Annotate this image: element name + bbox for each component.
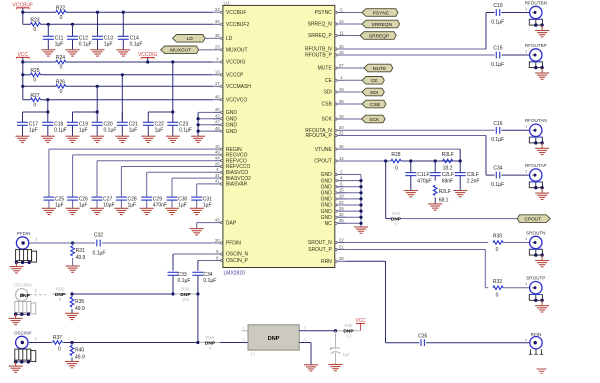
svg-text:SRREQP: SRREQP [369,33,389,39]
node SDI flag [362,88,384,96]
ground [91,50,105,56]
ground [537,369,547,373]
wire C30 net [172,178,213,197]
svg-text:0.1µF: 0.1µF [179,128,192,134]
op-amp U1 LMX2820 IC body [223,0,335,276]
svg-text:C25: C25 [55,196,64,202]
node C33 bottom [171,292,174,295]
wire C25 net [49,149,213,197]
svg-text:SRREQ_P: SRREQ_P [308,33,333,39]
wire R22 to pin 24 [66,11,213,13]
svg-text:44: 44 [215,156,220,161]
svg-text:R38: R38 [206,335,214,340]
svg-text:DNP: DNP [20,293,31,299]
svg-text:GND: GND [321,215,333,221]
svg-text:1: 1 [525,170,527,174]
node C34 OSCINP junction [196,341,199,344]
svg-text:SDI: SDI [370,90,378,96]
svg-text:GND: GND [321,191,333,197]
resistor R32 [493,279,503,299]
capacitor C18 [42,112,67,136]
svg-text:0: 0 [60,15,63,21]
svg-text:22: 22 [339,237,344,242]
resistor R25 [30,68,40,84]
svg-text:18: 18 [339,194,344,199]
wire VCCBUF down to rail2 [22,12,24,24]
svg-text:34: 34 [215,173,220,178]
svg-text:0.1µF: 0.1µF [104,128,117,134]
pin 15 RFOUTB_N [305,44,345,53]
svg-text:VCCDIG: VCCDIG [226,60,246,66]
svg-text:SROUT_P: SROUT_P [308,247,332,253]
node SRREQN flag [362,20,400,28]
svg-text:C19: C19 [79,121,88,127]
svg-text:10µF: 10µF [103,203,115,209]
wire C22 tap [148,111,173,113]
svg-text:R2LF: R2LF [439,189,451,195]
svg-text:MUTE: MUTE [318,66,333,72]
svg-text:C27: C27 [103,196,112,202]
svg-text:VCCBUF: VCCBUF [226,10,247,16]
svg-text:SCK: SCK [369,117,380,123]
pin 17 VCCMASH [213,81,251,90]
ground [141,136,155,142]
svg-text:45: 45 [215,95,220,100]
ground [354,227,368,233]
svg-text:0.1µF: 0.1µF [130,42,143,48]
wire SROUT_N [345,242,530,244]
svg-text:VCCVCO: VCCVCO [226,97,248,103]
node GND bus junction [359,222,362,225]
svg-text:C17: C17 [29,121,38,127]
resistor R24 [56,55,66,71]
resistor R28 [391,152,401,172]
pin 10 REGIN [213,144,242,153]
svg-text:24: 24 [215,7,220,12]
svg-text:GND: GND [321,203,333,209]
connector RFOUTBN [525,0,547,30]
ground [453,191,467,197]
svg-text:0: 0 [395,166,398,172]
svg-text:1µF: 1µF [29,128,38,134]
svg-text:0: 0 [496,247,499,253]
svg-text:1µF: 1µF [129,128,138,134]
resistor R30 [493,234,503,254]
svg-text:R31: R31 [76,248,85,254]
svg-text:1µF: 1µF [79,128,88,134]
connector RFOUTAN [525,118,547,148]
power flag VCCBUF [13,2,34,12]
svg-text:R27: R27 [30,93,39,99]
node CPOUT tee [384,159,387,162]
node C13 tap [96,11,99,14]
node GND bus junction [359,179,362,182]
resistor R3LF [442,152,454,172]
svg-text:1: 1 [525,125,527,129]
svg-text:0: 0 [58,347,61,353]
wire R27 to pin 45 [41,99,213,101]
capacitor C30 [167,196,188,208]
svg-text:16: 16 [339,50,344,55]
svg-text:R33: R33 [56,287,64,292]
pin 39 CSB [322,99,345,108]
wire OSCIN_P [198,261,213,271]
node C14 tap [122,11,125,14]
svg-text:VCCMASH: VCCMASH [226,84,251,90]
svg-text:0.1µF: 0.1µF [203,278,216,284]
power flag VCCDIG [138,52,158,62]
svg-text:LD: LD [187,36,194,42]
svg-text:0.1µF: 0.1µF [491,62,504,68]
svg-text:0.1µF: 0.1µF [93,250,106,256]
capacitor C23 [167,112,192,136]
wire RFOUTA_N [345,129,530,131]
capacitor C25 [43,196,64,208]
svg-text:C1LF: C1LF [417,172,429,178]
power flag VCC [16,52,29,62]
svg-text:470nF: 470nF [153,203,167,209]
svg-text:C14: C14 [130,35,139,41]
wire SRREQP [345,35,360,37]
node R35 tap [70,292,73,295]
capacitor C20 [92,112,117,136]
oscillator Y1 DNP [242,325,306,357]
svg-text:GND: GND [226,116,238,122]
ground [166,136,180,142]
wire oscillator pin4 [299,330,335,332]
svg-text:C11: C11 [55,35,64,41]
pin 35 NC [325,218,345,227]
svg-text:SCK: SCK [322,117,333,123]
svg-text:26: 26 [215,161,220,166]
node GND 48 [197,130,200,133]
wire VCC vertical [22,62,24,100]
wire C26 net [73,155,213,197]
pin 43 DAP [213,217,237,226]
svg-text:0.1µF: 0.1µF [178,278,191,284]
wire C21 feed vertical [121,75,123,121]
ground [165,208,179,214]
ground [65,313,79,319]
svg-text:29: 29 [339,206,344,211]
svg-text:20: 20 [215,238,220,243]
pin 42 GND [213,114,238,123]
ground [115,136,129,142]
svg-text:RFOUTAN: RFOUTAN [525,118,547,123]
pin 14 CPOUT [314,156,345,165]
node CE flag [362,77,384,85]
resistor R37 [53,335,63,353]
svg-text:PFDIN: PFDIN [17,231,31,236]
pin 20 PFDIN [213,238,241,247]
pin 22 SROUT_N [308,237,345,246]
pin 12 SRREQ_N [308,19,345,28]
wire MUXOUT [199,49,213,51]
svg-text:2: 2 [242,338,244,342]
capacitor C22 [143,112,164,136]
pin 29 GND [321,206,345,215]
svg-text:17: 17 [215,81,220,86]
svg-text:OSCIN_P: OSCIN_P [226,258,249,264]
svg-text:48: 48 [215,126,220,131]
node LD flag [173,35,206,43]
node C3LF [459,159,462,162]
svg-text:R22: R22 [56,5,65,11]
pin 18 SCK [322,114,345,123]
wire R26 to pin 17 [66,85,213,87]
svg-text:1: 1 [242,326,244,330]
pin 27 MUTE [318,63,345,72]
svg-text:VTUNE: VTUNE [315,147,333,153]
ground [90,136,104,142]
node GND bus junction [359,210,362,213]
ground [304,365,318,371]
svg-text:GND: GND [226,123,238,129]
node MUXOUT flag [161,46,199,54]
wire rail R25 left [23,74,31,76]
node C23 tap [171,110,174,113]
svg-text:RRN: RRN [321,259,332,265]
pin 46 VTUNE [315,144,345,153]
resistor R26 [56,79,66,95]
wire oscillator pin3 to ground [299,343,311,365]
ground [191,136,205,142]
svg-text:MUXOUT: MUXOUT [226,48,248,54]
wire C19 C20 feed vertical [96,86,98,112]
svg-text:LMX2820: LMX2820 [224,271,246,277]
svg-text:C12: C12 [79,35,88,41]
resistor R27 [30,93,40,109]
svg-text:32: 32 [339,212,344,217]
svg-text:R29: R29 [392,211,400,216]
wire CPOUT rail [345,160,460,162]
wire GND pins bus [198,112,221,136]
capacitor C19 [67,112,88,136]
resistor R34 DNP [175,287,197,303]
svg-text:R32: R32 [493,279,502,285]
node GND bus junction [359,191,362,194]
svg-text:38: 38 [215,33,220,38]
svg-text:CPOUT: CPOUT [524,216,541,222]
wire R25 to pin 13 [41,74,213,76]
svg-text:102: 102 [182,297,190,302]
svg-text:1µF: 1µF [178,203,187,209]
svg-text:GND: GND [321,184,333,190]
wire DAP [197,223,213,229]
ground [114,208,128,214]
svg-text:RFOUTBN: RFOUTBN [525,0,547,5]
pin 34 BIASVCO2 [213,173,251,182]
node SCK flag [362,115,386,123]
node C18 tap [46,110,49,113]
wire PFDIN [29,242,213,244]
svg-text:C31: C31 [203,196,212,202]
capacitor C21 [117,112,138,136]
ground [190,229,204,235]
svg-text:18: 18 [339,114,344,119]
svg-text:10: 10 [215,144,220,149]
svg-text:GND: GND [321,178,333,184]
svg-text:LD: LD [226,36,233,42]
svg-text:11: 11 [339,30,344,35]
pin 31 RFOUTA_P [305,130,344,139]
svg-text:C10: C10 [493,3,502,9]
svg-text:R26: R26 [56,79,65,85]
svg-text:1µF: 1µF [55,203,64,209]
svg-text:OSCINN: OSCINN [14,283,32,288]
connector OSCINP [14,330,37,366]
svg-text:C23: C23 [179,121,188,127]
svg-text:1: 1 [35,289,37,293]
svg-text:GND: GND [321,172,333,178]
wire R24 to pin 7 [66,61,213,63]
wire rail2 R23 left [23,23,31,25]
wire OSCIN_N [173,254,213,271]
svg-text:1: 1 [36,237,38,241]
svg-text:C20: C20 [104,121,113,127]
wire C27 net [97,161,213,197]
svg-text:PSYNC: PSYNC [373,10,390,16]
svg-text:0.1µF: 0.1µF [79,42,92,48]
capacitor C35 [418,333,427,346]
svg-text:OSCIN_N: OSCIN_N [226,252,249,258]
svg-text:SROUTP: SROUTP [526,276,545,281]
svg-text:C22: C22 [155,121,164,127]
svg-text:SRREQ_N: SRREQ_N [308,22,333,28]
wire CE [345,79,362,81]
svg-text:1: 1 [525,282,527,286]
svg-text:C21: C21 [129,121,138,127]
svg-text:R25: R25 [30,68,39,74]
svg-text:18.2: 18.2 [443,166,453,172]
svg-text:VCCCP: VCCCP [226,73,244,79]
wire GND bus right [337,175,361,228]
svg-text:19: 19 [339,87,344,92]
pin 6 GND [321,182,345,191]
capacitor C3LF [455,161,480,191]
svg-text:0.1µF: 0.1µF [491,19,504,25]
pin 28 RRN [321,256,345,265]
pin 16 RFOUTB_P [305,50,345,59]
svg-text:VCCBUF2: VCCBUF2 [226,22,250,28]
wire SCK [345,118,362,120]
svg-text:0: 0 [33,27,36,33]
svg-text:1: 1 [35,337,37,341]
pin 45 VCCVCO [213,95,248,104]
pin 41 BIASVAR [213,179,248,188]
svg-text:1: 1 [525,7,527,11]
svg-text:41: 41 [215,179,220,184]
connector PFDIN [15,231,38,267]
svg-text:MUXOUT: MUXOUT [170,48,191,54]
wire C29 net [147,172,213,197]
svg-text:C30: C30 [178,196,187,202]
svg-text:3.3: 3.3 [346,334,353,339]
svg-text:46: 46 [339,144,344,149]
svg-text:35: 35 [339,218,344,223]
ground [66,208,80,214]
connector RFOUTBP [525,43,547,73]
pin 40 GND [213,107,238,116]
pin 13 VCCCP [213,70,244,79]
svg-text:27: 27 [339,63,344,68]
power flag VCC oscillator [355,318,366,331]
wire C17 C18 feed vertical [47,100,49,112]
svg-text:28: 28 [339,256,344,261]
svg-text:49.9: 49.9 [75,355,85,361]
ground [66,136,80,142]
svg-text:R36: R36 [345,323,353,328]
wire CSB [345,103,362,105]
wire RFOUTA_P [345,136,530,176]
svg-text:0.1µF: 0.1µF [491,137,504,143]
svg-text:R30: R30 [493,234,502,240]
wire rail R27 left [23,99,31,101]
ground [42,208,56,214]
svg-text:CSB: CSB [322,102,333,108]
wire C22 C23 feed vertical [172,62,174,112]
connector RFIN [525,332,543,354]
svg-text:SROUT_N: SROUT_N [308,240,332,246]
svg-text:3: 3 [303,338,305,342]
svg-text:1µF: 1µF [79,203,88,209]
svg-text:14: 14 [339,156,344,161]
svg-text:4: 4 [303,326,305,330]
node GND 42 [197,117,200,120]
pin 3 BIASVCO [213,167,248,176]
node CSB flag [362,100,386,108]
node C1LF [409,159,412,162]
pin 18 GND [321,194,345,203]
ground [16,136,30,142]
node rail3 tap [21,85,24,88]
wire rail VCCDIG left [23,61,56,63]
capacitor C34b [192,272,216,294]
svg-text:33: 33 [215,19,220,24]
node rail2 tap [21,73,24,76]
svg-text:DAP: DAP [226,220,237,226]
wire LD [205,37,213,39]
svg-text:R34: R34 [182,287,190,292]
resistor R38 DNP [200,335,220,351]
node C20 tap [96,110,99,113]
wire OSCINN row [72,293,173,295]
capacitor C12 [67,24,92,50]
svg-text:0: 0 [33,78,36,84]
svg-text:C32: C32 [94,233,103,239]
pin 15 GND [321,188,345,197]
svg-text:R40: R40 [75,348,84,354]
svg-text:21: 21 [339,244,344,249]
capacitor C31 [191,196,212,208]
node GND 47 [197,123,200,126]
capacitor C29 [141,196,167,208]
resistor R29 DNP [391,211,402,227]
svg-text:U1: U1 [224,0,230,6]
pin 22 GND [321,200,345,209]
svg-text:DNP: DNP [268,336,280,342]
node MUTE flag [364,64,393,72]
capacitor C2LF [430,161,454,185]
pin 47 GND [213,120,238,129]
ground [329,365,343,371]
svg-text:RFOUTB_P: RFOUTB_P [305,53,332,59]
ground [428,204,442,210]
svg-text:0: 0 [60,65,63,71]
wire VCCBUF rail to R22 [23,11,56,13]
svg-text:CE: CE [325,78,333,84]
node SRREQP flag [360,32,396,40]
